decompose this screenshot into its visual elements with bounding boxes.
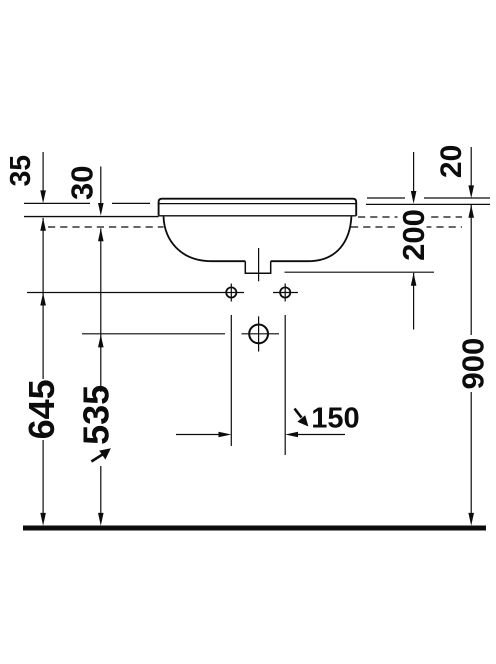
svg-text:535: 535 (75, 385, 116, 445)
svg-text:645: 645 (21, 379, 62, 439)
svg-text:20: 20 (435, 145, 468, 178)
svg-text:900: 900 (455, 338, 490, 390)
svg-text:150: 150 (311, 403, 359, 435)
svg-text:30: 30 (64, 166, 99, 200)
svg-text:200: 200 (396, 209, 431, 261)
svg-text:35: 35 (5, 155, 37, 187)
